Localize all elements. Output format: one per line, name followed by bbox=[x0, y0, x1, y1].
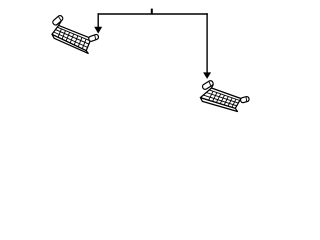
roller B-right bbox=[240, 96, 250, 103]
roller A-left bbox=[52, 15, 64, 26]
roller A-right cap line bbox=[94, 35, 96, 40]
roller B-left cap line bbox=[208, 82, 211, 86]
panel B grid hline 2 bbox=[203, 95, 237, 106]
panel A grid hline 1 bbox=[56, 30, 89, 44]
panel A grid hline 2 bbox=[54, 32, 88, 47]
panel A (left roll-up keyboard) bbox=[52, 15, 99, 54]
wire top horizontal bbox=[98, 13, 208, 15]
panel A top face bbox=[52, 25, 91, 50]
panel A side face bbox=[52, 34, 88, 53]
roller A-right bbox=[88, 34, 99, 42]
roller A-left cap line bbox=[58, 17, 61, 21]
wire left vertical bbox=[97, 13, 99, 27]
panel B left edge extension bbox=[212, 84, 214, 88]
panel B top face bbox=[200, 88, 241, 108]
arrowhead right bbox=[203, 72, 211, 79]
panel A left edge extension bbox=[59, 21, 62, 25]
panel A frame line bbox=[57, 27, 90, 41]
tick center node bbox=[151, 9, 153, 14]
roller B-right cap line bbox=[245, 97, 247, 102]
panel B (right roll-up keyboard) bbox=[200, 80, 249, 112]
panel A grid verticals bbox=[58, 29, 86, 49]
panel B side face bbox=[200, 98, 237, 112]
roller B-left bbox=[202, 80, 214, 90]
panel B frame line bbox=[209, 90, 240, 101]
arrowhead left bbox=[94, 27, 102, 34]
panel B grid hline 1 bbox=[206, 93, 238, 104]
panel B grid verticals bbox=[209, 91, 236, 107]
wire right vertical bbox=[206, 13, 208, 73]
